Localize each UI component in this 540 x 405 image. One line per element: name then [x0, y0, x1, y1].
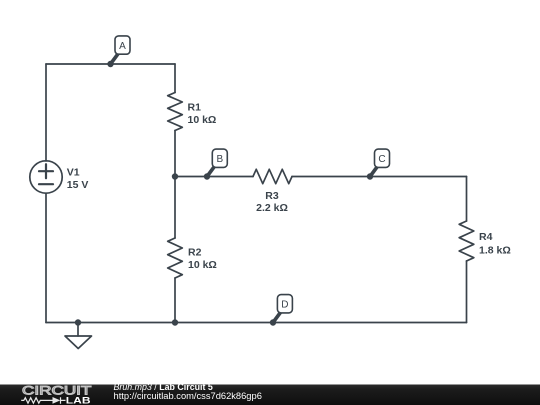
CircuitLab logo wordmark: [21, 384, 92, 405]
node flag D: [273, 295, 292, 323]
label R1 value: [188, 101, 217, 126]
label R3 value: [256, 190, 288, 214]
svg-text:15 V: 15 V: [67, 179, 89, 191]
svg-text:10 kΩ: 10 kΩ: [188, 259, 217, 271]
wire left upper (V1 + to top): [45, 64, 47, 161]
wire R1 top stub: [174, 64, 176, 93]
svg-text:1.8 kΩ: 1.8 kΩ: [479, 244, 511, 256]
wire top (node A net): [46, 63, 175, 65]
ground: [65, 323, 92, 349]
node flag A: [111, 36, 131, 64]
svg-text:2.2 kΩ: 2.2 kΩ: [256, 202, 288, 214]
wire node B to R3: [175, 176, 253, 178]
junction dot node C: [367, 173, 373, 179]
node flag B: [207, 149, 227, 176]
svg-text:V1: V1: [67, 166, 80, 178]
footer bar: [0, 385, 540, 405]
svg-text:http://circuitlab.com/css7d62k: http://circuitlab.com/css7d62k86gp6: [114, 391, 262, 401]
svg-text:R4: R4: [479, 231, 493, 243]
label R2 value: [188, 247, 217, 272]
voltage source V1: [30, 161, 62, 193]
wire right lower (R4 to bottom): [466, 261, 468, 323]
svg-text:C: C: [378, 154, 385, 165]
svg-text:A: A: [119, 41, 126, 52]
junction dot node A: [107, 61, 113, 67]
wire bottom (node D net): [46, 322, 467, 324]
wire right upper (to R4): [466, 177, 468, 222]
resistor R1: [168, 93, 183, 131]
node flag C: [370, 149, 390, 176]
resistor R4: [459, 221, 474, 261]
label V1 value: [67, 166, 89, 190]
svg-text:B: B: [216, 154, 223, 165]
junction dot R2 bottom: [172, 319, 178, 325]
svg-text:R1: R1: [188, 101, 202, 113]
resistor R3: [253, 169, 292, 183]
wire R3 to node C to right corner: [292, 176, 467, 178]
wire R2 top stub: [174, 177, 176, 239]
wire R1 bottom to node B: [174, 131, 176, 177]
junction dot flag B attach: [204, 173, 210, 179]
wire left lower (V1 - to bottom): [45, 193, 47, 322]
svg-text:R2: R2: [188, 247, 202, 259]
svg-text:R3: R3: [265, 190, 279, 202]
resistor R2: [168, 238, 183, 278]
svg-text:LAB: LAB: [66, 396, 91, 405]
label R4 value: [479, 231, 511, 256]
svg-text:D: D: [281, 300, 288, 311]
svg-text:10 kΩ: 10 kΩ: [188, 114, 217, 126]
wire R2 bottom stub: [174, 278, 176, 323]
junction dot flag D attach: [270, 319, 276, 325]
junction dot node B (R1/R2 junction): [172, 173, 178, 179]
junction dot ground: [75, 319, 81, 325]
